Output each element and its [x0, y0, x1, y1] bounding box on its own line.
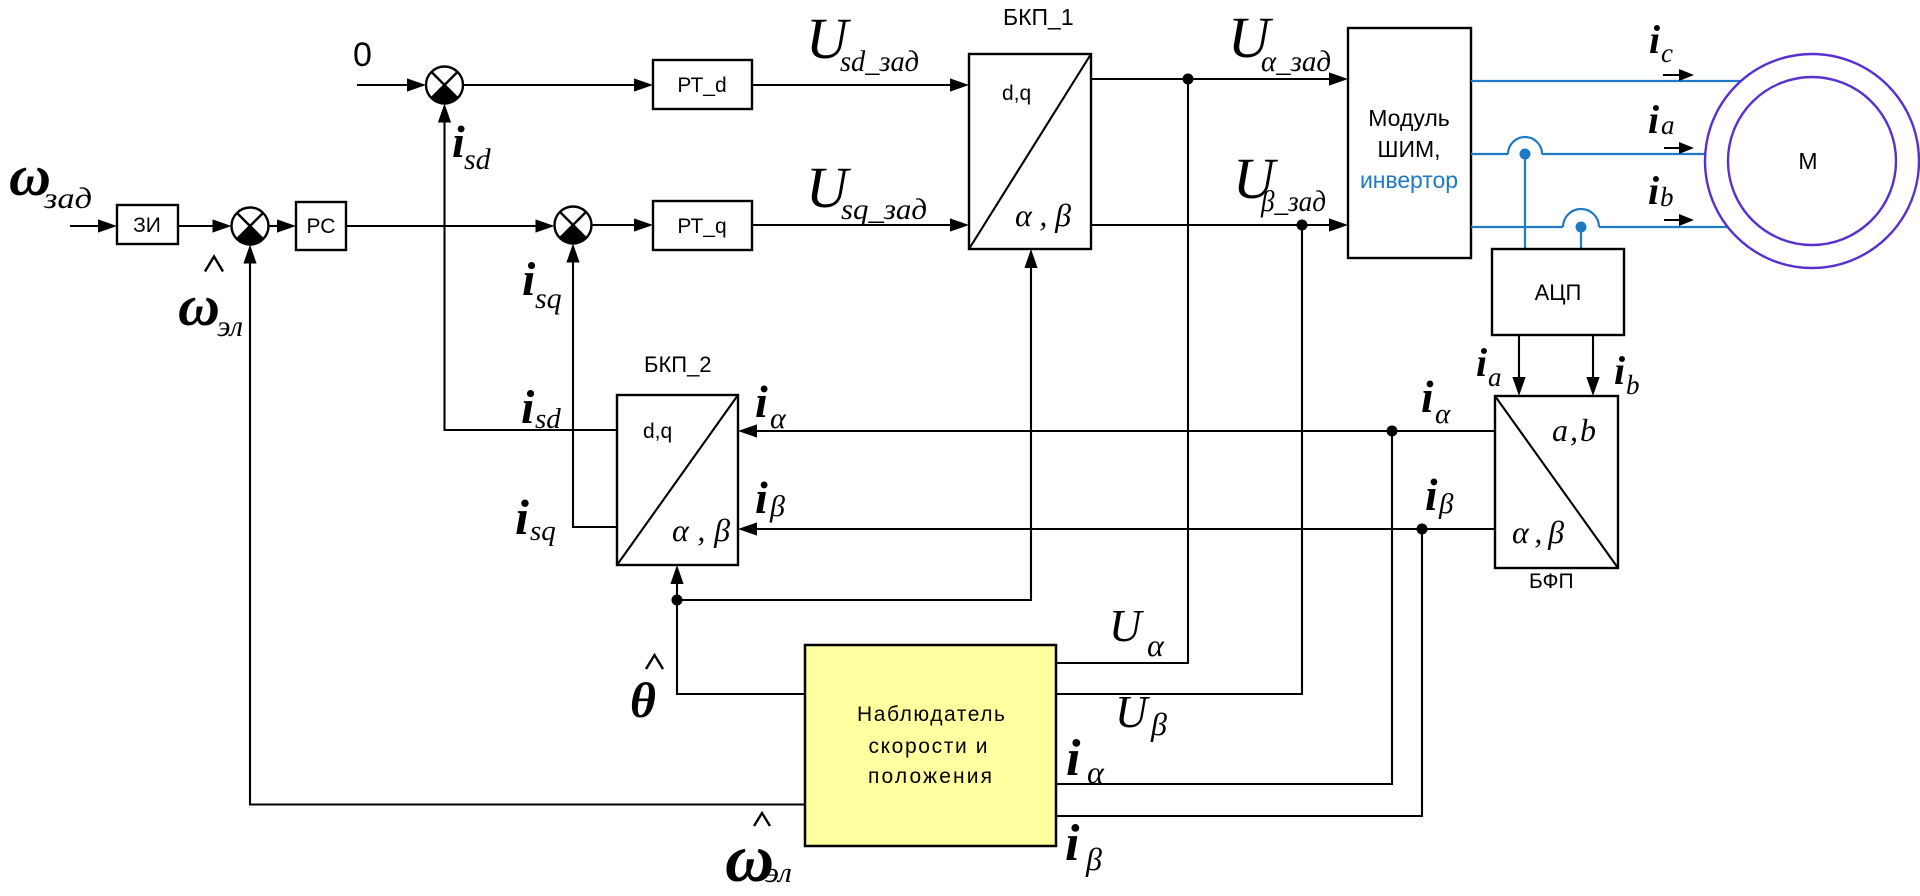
node i_c label — [1649, 17, 1673, 68]
svg-text:i: i — [755, 376, 768, 427]
svg-text:sd: sd — [535, 403, 561, 435]
summing junction S-top (d-axis) — [426, 67, 463, 104]
wire i_beta from BFP to BKP_2 — [738, 522, 1495, 535]
svg-text:ШИМ,: ШИМ, — [1377, 136, 1440, 162]
svg-text:α,β: α,β — [1512, 514, 1564, 550]
svg-text:i: i — [1066, 730, 1081, 787]
wire phase c (blue) — [1471, 80, 1741, 82]
wire i_sd feedback from BKP_2 up to S-top — [438, 104, 617, 431]
svg-text:α: α — [1435, 398, 1451, 430]
node U_alpha_zad label — [1228, 5, 1331, 78]
node i_alpha label (at BKP_2) — [755, 376, 787, 435]
block observer (yellow) — [805, 645, 1056, 846]
svg-text:α: α — [1147, 627, 1165, 663]
block RT_d (d-current regulator) — [653, 60, 752, 109]
node U_sd_zad label — [806, 6, 919, 78]
block BFP (abc to alpha-beta) — [1495, 396, 1618, 568]
block BKP_2 (alpha-beta to dq) — [617, 395, 738, 565]
node i_a label (ADC out) — [1476, 340, 1502, 392]
svg-text:i: i — [1648, 168, 1659, 213]
svg-text:эл: эл — [217, 310, 243, 343]
node U_beta label (observer input) — [1115, 687, 1167, 742]
node i_sq label (upper) — [522, 253, 562, 315]
svg-text:a: a — [1488, 362, 1502, 392]
wire U_beta_zad to PWM — [1091, 218, 1348, 231]
summing junction S2 (q-axis) — [555, 207, 592, 244]
svg-text:θ: θ — [630, 672, 656, 728]
svg-text:α,β: α,β — [672, 512, 730, 548]
svg-text:инвертор: инвертор — [1360, 167, 1458, 193]
svg-text:β_зад: β_зад — [1260, 185, 1326, 218]
junction dot on U_alpha_zad — [1183, 74, 1194, 85]
wire ADC out b — [1586, 335, 1599, 396]
svg-text:Модуль: Модуль — [1368, 105, 1450, 131]
svg-text:b: b — [1660, 182, 1674, 212]
svg-text:эл: эл — [765, 857, 792, 889]
svg-text:i: i — [755, 472, 768, 523]
svg-text:U: U — [1115, 687, 1150, 737]
svg-text:М: М — [1798, 148, 1817, 174]
junction dot on theta wire — [672, 595, 683, 606]
wire RT_q to BKP_1 — [752, 218, 969, 231]
wire S1 to RS — [269, 219, 297, 232]
node i_a label — [1648, 97, 1675, 142]
svg-text:sq: sq — [535, 282, 562, 315]
svg-text:sd_зад: sd_зад — [840, 45, 919, 78]
direction arrow on phase b — [1664, 214, 1694, 226]
wire i_sq feedback from BKP_2 up to S2 — [566, 244, 617, 528]
svg-text:α: α — [770, 402, 787, 435]
svg-text:положения: положения — [868, 765, 992, 788]
block ZI (intensity setter) — [117, 205, 178, 244]
svg-text:БКП_2: БКП_2 — [644, 352, 712, 377]
junction dot on i_alpha — [1387, 426, 1398, 437]
node i_sq label (at BKP_2) — [515, 489, 556, 547]
wire 0 into sum-top — [357, 78, 426, 91]
svg-text:скорости и: скорости и — [869, 735, 988, 758]
node i_b label — [1648, 168, 1674, 213]
svg-text:β: β — [769, 490, 785, 523]
svg-text:0: 0 — [353, 36, 372, 74]
svg-text:sq: sq — [530, 515, 556, 547]
svg-text:a: a — [1661, 110, 1675, 140]
wire S-top to RT_d — [463, 78, 653, 91]
svg-text:ЗИ: ЗИ — [133, 214, 161, 237]
node omega_el hat label (feedback into S1) — [178, 257, 243, 344]
motor M inner circle — [1728, 77, 1896, 245]
svg-text:d,q: d,q — [643, 420, 672, 443]
node U_alpha label (observer input) — [1109, 601, 1165, 663]
node U_beta_zad label — [1233, 146, 1326, 218]
direction arrow on phase a — [1664, 142, 1694, 154]
svg-text:d,q: d,q — [1002, 82, 1031, 105]
current sensor node a (blue dot) — [1520, 149, 1531, 160]
svg-text:РС: РС — [307, 215, 336, 238]
node i_beta label (at BKP_2) — [755, 472, 785, 523]
block BKP_1 (dq to alpha-beta) — [969, 54, 1091, 249]
wire BKP_1 theta input from below — [677, 249, 1038, 600]
svg-text:РТ_q: РТ_q — [677, 215, 726, 238]
svg-text:РТ_d: РТ_d — [677, 74, 726, 97]
wire sensor a to ADC (blue) — [1524, 154, 1526, 249]
node omega_zad label — [9, 143, 92, 215]
block ADC (ACP) — [1492, 249, 1624, 335]
wire omega_el feedback from observer to S1 — [243, 245, 806, 805]
wire S2 to RT_q — [592, 218, 654, 231]
svg-text:sd: sd — [464, 143, 492, 176]
svg-text:i: i — [1421, 372, 1434, 422]
wire i_alpha feedback down to observer — [1057, 431, 1392, 784]
wire i_alpha from BFP to BKP_2 — [738, 424, 1495, 437]
svg-text:α_зад: α_зад — [1261, 45, 1331, 78]
node i_b label (ADC out) — [1614, 348, 1640, 400]
svg-text:Наблюдатель: Наблюдатель — [857, 703, 1005, 726]
current sensor node b (blue dot) — [1576, 222, 1587, 233]
svg-text:i: i — [1476, 340, 1487, 385]
node i_alpha label (at BFP) — [1421, 372, 1451, 430]
svg-text:b: b — [1626, 370, 1640, 400]
svg-text:зад: зад — [43, 182, 92, 215]
summing junction S1 — [232, 208, 269, 245]
wire phase b (blue) with sensor arc — [1471, 209, 1727, 227]
block RT_q (q-current regulator) — [653, 201, 752, 250]
svg-text:АЦП: АЦП — [1535, 280, 1582, 305]
svg-text:i: i — [515, 489, 529, 545]
svg-text:ω: ω — [178, 273, 220, 338]
svg-text:sq_зад: sq_зад — [841, 193, 927, 226]
junction dot on U_beta_zad — [1297, 220, 1308, 231]
node theta hat label — [630, 655, 663, 728]
svg-text:α,β: α,β — [1015, 197, 1071, 233]
svg-text:β: β — [1085, 841, 1102, 877]
wire theta from observer to BKP_2 — [670, 565, 806, 694]
node U_sq_zad label — [806, 155, 927, 226]
node omega_el hat label (bottom) — [725, 813, 792, 896]
motor M outer circle — [1705, 54, 1919, 268]
block PWM module / inverter — [1348, 28, 1471, 258]
svg-text:i: i — [1648, 97, 1659, 142]
node i_alpha label (observer input) — [1066, 730, 1105, 790]
svg-text:i: i — [1649, 17, 1660, 62]
wire i_beta feedback down to observer — [1057, 529, 1422, 816]
junction dot on i_beta — [1417, 524, 1428, 535]
direction arrow on phase c — [1663, 69, 1694, 81]
svg-text:c: c — [1661, 38, 1673, 68]
svg-text:α: α — [1087, 754, 1105, 790]
wire U_beta feedback down to observer — [1057, 225, 1302, 694]
wire omega_zad into ZI — [70, 219, 117, 232]
wire sensor b to ADC (blue) — [1580, 227, 1582, 249]
node i_beta label (at BFP) — [1425, 470, 1454, 520]
wire phase a (blue) with sensor arc — [1471, 137, 1705, 154]
svg-text:БКП_1: БКП_1 — [1003, 4, 1074, 30]
svg-text:i: i — [1065, 815, 1080, 872]
block RS (speed regulator) — [296, 202, 346, 250]
wire RT_d to BKP_1 — [752, 78, 969, 91]
svg-text:U: U — [1109, 601, 1144, 651]
svg-text:i: i — [521, 381, 535, 434]
svg-text:i: i — [1614, 348, 1625, 393]
svg-text:БФП: БФП — [1529, 570, 1574, 593]
wire ADC out a — [1512, 335, 1525, 396]
wire RS to sum2 — [346, 219, 555, 232]
svg-text:i: i — [522, 253, 536, 306]
wire ZI to sum1 — [178, 219, 232, 232]
node i_sd label (top feedback) — [452, 116, 492, 176]
svg-text:i: i — [1425, 470, 1438, 520]
node i_sd label (at BKP_2) — [521, 381, 561, 435]
svg-text:a,b: a,b — [1552, 412, 1596, 448]
svg-text:β: β — [1150, 706, 1167, 742]
svg-text:β: β — [1438, 488, 1454, 520]
node i_beta label (observer input) — [1065, 815, 1102, 877]
wire U_alpha_zad to PWM — [1091, 72, 1348, 85]
wire U_alpha feedback down to observer — [1057, 79, 1188, 663]
